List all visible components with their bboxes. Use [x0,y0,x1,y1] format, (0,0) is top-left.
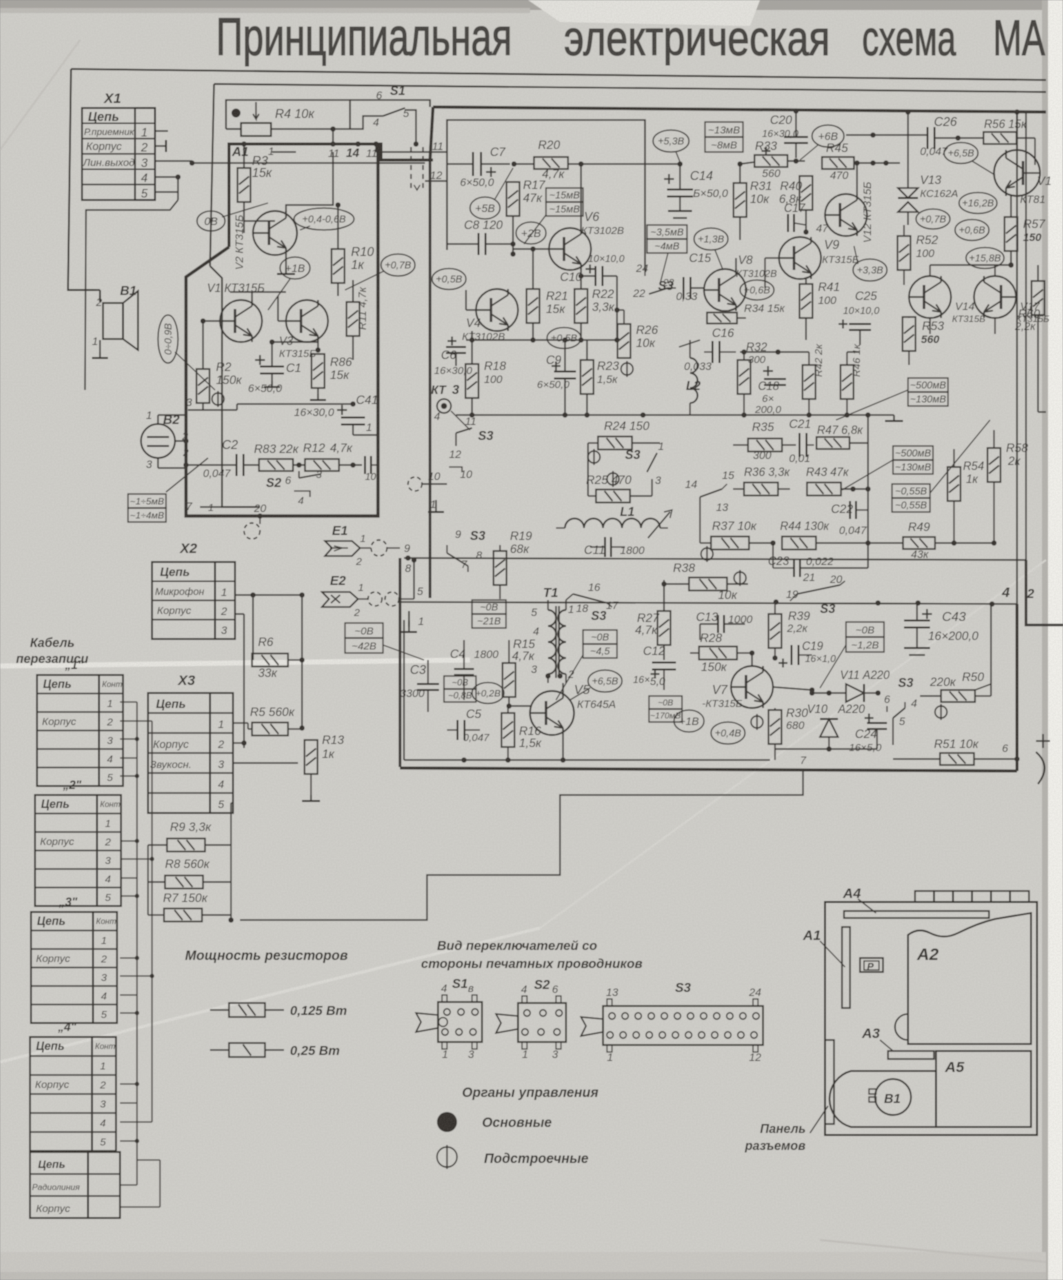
resistor R51 [940,753,974,765]
wire y135 right [846,134,928,136]
gnd near 1 [435,500,437,512]
P box [860,958,883,972]
wire V3 emitter [317,342,319,350]
gnd symbol A1 bottom [210,509,212,516]
wire pins to S1 line [375,144,377,152]
motor B1 body [830,1071,936,1127]
resistor R54 [948,467,961,501]
cable link dashed [410,147,412,188]
capacitor C18 [763,366,773,376]
resistor R60 [1032,281,1045,315]
voltage box ~0В ~0,8В [444,676,476,702]
switch view S3 [581,980,763,1064]
resistor R43 [807,483,841,496]
oval +15,8В [966,248,1004,269]
resistor R37 [711,537,749,550]
oval +2В [516,222,546,244]
capacitor C7 [473,152,481,176]
capacitor C1 [255,355,265,365]
sheet border top [71,69,1046,80]
wire X1.3 to line-out [192,162,425,164]
resistor R6 [252,654,288,667]
resistor R38 [689,578,727,591]
X3 wires [233,742,244,744]
resistor R36 [744,483,778,496]
cable table 3 [31,895,117,1023]
block A2 [908,913,1031,1044]
resistor R18 [466,364,479,398]
wire top-right bus [957,112,959,138]
wire V6 base [513,248,549,250]
resistor R57 [1005,217,1018,251]
switch view S2 [496,977,566,1061]
main vertical x400 [399,558,402,767]
oval +5В [470,197,500,219]
resistor R35 [748,439,782,452]
wire below border [240,771,803,920]
sheet border left (wire to B1) [68,69,96,290]
legend Подстроечные [437,1145,457,1169]
resistor R30 [769,710,782,744]
capacitor C14 [664,174,674,184]
resistor R46 [841,365,854,399]
wire v7 out [762,706,764,715]
legend Основные [437,1112,457,1132]
resistor R5 [252,723,288,736]
inner frame jog [210,266,260,507]
wire y164 bus [514,163,534,165]
resistor R16 [502,713,515,747]
resistor R86 [312,354,325,388]
resistor R39 [769,614,782,648]
voltage box ~3,5мВ [647,225,687,253]
resistor R15 [503,663,516,697]
oval +6,5В v5 [588,670,622,692]
oval +1,3В [694,228,728,250]
resistor R13 [305,740,318,774]
resistor R27 [658,611,671,645]
legend 0.25W [210,1049,229,1051]
X1 pin wires [155,130,168,132]
oval +16,2В [959,193,997,214]
resistor R49 [903,537,935,549]
transistor V6 [549,228,591,270]
resistor R56 [984,132,1017,144]
wire row y435 [353,434,378,436]
long wire y558 [404,558,1026,560]
wire R12 right [339,464,353,466]
block A5 [936,1051,1031,1127]
dashed circles E1 [371,540,387,556]
wire V1-V3 bases [203,320,220,322]
cable table 2 [35,778,121,906]
knob dot [232,109,241,118]
resistor R47 [817,437,850,449]
resistor R9 [167,839,205,852]
oval +5,3В [653,130,689,152]
device outline [825,902,1037,1135]
transistor V4 [476,289,518,331]
oval +0,2В [472,683,504,704]
inductor L1 head [565,519,660,529]
wire pin11 to R4 [332,129,334,144]
resistor R53 [903,317,916,351]
V6 emitter + C10 [580,270,582,276]
resistor R17 [507,182,520,216]
cable bus wires [136,702,138,1185]
wire y415 long [720,414,894,416]
voltage box ~0В ~1,2В [846,622,884,652]
voltage box ~0,55В [892,484,930,512]
capacitor C6 [448,337,457,346]
transistor V8 [704,269,746,311]
transistor V15 [994,150,1040,196]
wire V3 base [278,320,286,322]
resistor R44 [782,537,816,550]
wire V2 base [244,232,253,234]
wire y352 right [740,351,809,353]
oval +1В [280,257,310,279]
oval +3,3В [853,259,887,281]
voltage box ~13мВ [705,122,743,152]
oval +0,7В [381,254,415,276]
oval +0,4В [711,722,745,744]
voltage box ~0В ~42В [345,623,383,653]
resistor R10 [332,249,345,283]
legend 0.125W [210,1009,229,1011]
capacitor C21 [800,433,807,457]
V2 emitter gnd [285,255,287,268]
inner box line [447,120,645,270]
resistor R58 [988,448,1001,482]
left resistor bus [147,845,149,915]
potentiometer R50 [941,690,975,702]
transistor V9 [779,237,821,279]
oval +0,5В mid [547,328,581,349]
capacitor to screen [365,456,371,474]
radio table [30,1152,88,1218]
oval +1В v7 [674,710,704,732]
resistor R42 [803,365,816,399]
resistor R23 [581,360,594,394]
transistor V17 [974,276,1016,318]
transistor V2 [253,211,297,255]
transistor V14 [909,276,951,318]
oval +6В [812,125,844,147]
resistor R7 [164,909,202,922]
voltage box ~0В ~21В [472,600,506,628]
bottom border thick [400,768,1017,771]
main block left border [430,107,433,160]
cable table 4 [30,1020,116,1151]
oval +0,68В [955,220,989,241]
capacitor C19 [792,645,799,665]
wire R15-V5 base [509,705,531,707]
wire R4 to S1 [350,116,383,129]
capacitor C24 [865,714,874,723]
wire x617 down [616,276,618,340]
voltage box ~15мВ [546,188,583,216]
resistor R3 [238,168,251,202]
inductor L2 [690,358,698,403]
wire y415 bus [456,414,720,416]
V6 collector wire [580,164,582,228]
adj v7 [751,714,763,730]
wire x302 [301,595,303,728]
oval 0-0,9В [158,315,178,363]
resistor R33 [755,155,788,167]
voltage box ~500мВ 2 [893,446,933,474]
resistor R22 [575,289,588,323]
transistor V5 [530,691,574,735]
resistor R83 [259,459,293,471]
callout line B2 [166,458,208,492]
S3 contacts mid [647,453,657,472]
main block top border [433,107,1046,112]
wire R3 [243,144,245,168]
resistor R34 [707,313,737,324]
V2 collector wire [286,152,333,212]
transistor V12 [825,194,867,236]
resistor R12 [305,459,339,471]
wire y340 [466,339,617,341]
wire V9 base [765,257,779,259]
left strip [825,1040,834,1124]
resistor R20 [534,157,568,169]
oval +0,4-0,6В [294,208,354,230]
wire loop around R4 [226,100,350,129]
V1 collector [251,292,253,300]
board A4 strip [844,911,989,918]
switch view S1 [416,976,482,1061]
A1 module border [229,144,433,247]
resistor R24 [598,437,632,450]
wire C41 row [188,409,237,411]
resistor R31 [734,183,747,217]
oval +6,5В [944,143,978,164]
oval +0,6В low [740,280,774,300]
potentiometer R4 [241,123,271,136]
wire X2.2 [235,613,244,615]
resistor R11 [347,302,360,336]
oval 0В [197,211,225,231]
transistor V1 [220,300,262,342]
transistor V3 [286,300,328,342]
bottom wire y760 [404,759,770,761]
resistor R8 [165,876,203,889]
cable table 1 [37,658,123,786]
resistor R25 [596,490,630,503]
resistor R2 [197,369,210,403]
capacitor C9 [554,372,576,379]
resistor R26 [618,324,631,358]
voltage box ~500мВ top [908,378,948,406]
inner frame line [214,84,1046,92]
oval +0,5В left [432,269,466,290]
switch arm 14-15 [700,489,722,497]
big plus right [1036,734,1050,748]
right entry thick [1026,560,1063,625]
wire X2.1 [235,594,302,596]
wire V8 collector [735,258,737,270]
voltage note box ~1-5мВ [128,494,166,522]
top tabs [915,891,934,902]
wire y749 [775,748,877,750]
resistor R21 [527,289,540,323]
transistor V7 [731,666,773,708]
dashed circles E2 [368,592,382,606]
resistor R28 [699,647,737,660]
wire y604 bus [400,602,1017,604]
main vertical x404 [403,620,405,760]
oval +0,7В r [916,209,950,229]
resistor R32 [738,360,751,394]
zener V13 [898,188,918,212]
board A1 strip [842,927,850,1008]
voltage box ~0В ~4,5 [583,630,617,658]
wire X1 down-left [85,200,178,390]
resistor R41 [800,284,813,318]
resistor R52 [898,236,911,270]
voltage box ~0В ~170мВ [649,696,682,722]
resistor R45 [822,157,854,169]
resistor R40 [800,176,813,210]
dashed circle bottom [244,523,260,539]
wire mid column [587,443,589,496]
board A3 strip [888,1051,934,1059]
capacitor C43 [922,609,932,619]
right verticals [1016,112,1018,604]
wire border to B1 [68,289,100,291]
motor B1 circle [875,1079,911,1115]
